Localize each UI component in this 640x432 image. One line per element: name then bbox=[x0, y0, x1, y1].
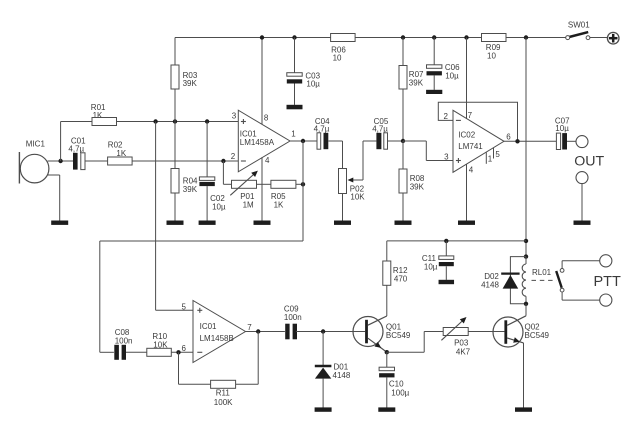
op-amp IC01A LM1458A bbox=[238, 110, 290, 172]
wire R04 to ground bbox=[174, 193, 176, 221]
node feedback/output column bbox=[301, 182, 305, 186]
wire C04 to P02 bbox=[328, 140, 342, 142]
svg-text:10K: 10K bbox=[350, 192, 365, 201]
resistor R07 bbox=[399, 66, 407, 90]
wire contact to PTT lower bbox=[561, 292, 563, 300]
svg-text:5: 5 bbox=[495, 150, 500, 159]
ground R04 bbox=[167, 221, 184, 225]
pin 4 wire bbox=[466, 164, 468, 220]
ground IC01A pin4 bbox=[254, 221, 271, 225]
wire pin2 to feedback row bbox=[222, 161, 224, 184]
capacitor C11 bbox=[439, 256, 454, 260]
svg-text:10µ: 10µ bbox=[306, 80, 320, 89]
svg-text:3: 3 bbox=[232, 112, 237, 121]
svg-text:39K: 39K bbox=[409, 78, 424, 87]
svg-text:1: 1 bbox=[488, 155, 493, 164]
svg-text:100n: 100n bbox=[115, 336, 133, 345]
svg-text:LM1458A: LM1458A bbox=[240, 138, 275, 147]
wire R11 to output bbox=[236, 383, 259, 385]
svg-text:10µ: 10µ bbox=[424, 262, 438, 271]
pin 5 tick bbox=[493, 148, 495, 159]
wire C09 to Q01 base bbox=[296, 331, 365, 333]
svg-text:2: 2 bbox=[231, 152, 236, 161]
svg-text:7: 7 bbox=[247, 323, 252, 332]
pin 4 wire bbox=[261, 157, 263, 220]
pin 8 wire bbox=[261, 38, 263, 125]
capacitor C06 bbox=[427, 65, 442, 69]
ground C02 bbox=[199, 221, 216, 225]
svg-text:8: 8 bbox=[264, 114, 269, 123]
wire row to R12 bbox=[387, 240, 526, 242]
svg-text:R11: R11 bbox=[216, 388, 231, 397]
wire output down to VOX tap bbox=[302, 141, 304, 241]
wire D02 branch bbox=[510, 257, 526, 304]
capacitor C02 bbox=[199, 177, 214, 181]
op-amp IC02 LM741 bbox=[453, 110, 504, 172]
ground P02 bbox=[334, 221, 351, 225]
wire P01 to R05 bbox=[257, 183, 271, 185]
svg-text:IC01: IC01 bbox=[200, 322, 217, 331]
svg-text:1: 1 bbox=[291, 130, 296, 139]
svg-text:3: 3 bbox=[444, 152, 449, 161]
svg-text:470: 470 bbox=[394, 274, 408, 283]
resistor R05 bbox=[271, 180, 296, 188]
node mic output junction bbox=[58, 159, 62, 163]
wire node to R04 bbox=[174, 122, 176, 169]
svg-text:39K: 39K bbox=[183, 79, 198, 88]
wire node to pin3 IC02 bbox=[403, 140, 426, 142]
svg-text:SW01: SW01 bbox=[568, 20, 590, 29]
trimmer P01 bbox=[232, 180, 257, 188]
wire Q02 collector to relay bbox=[525, 304, 527, 316]
svg-text:MIC1: MIC1 bbox=[26, 140, 46, 149]
relay contact lever bbox=[556, 271, 562, 288]
wire R01 to pin3 bbox=[117, 121, 239, 123]
wire output pin7 bbox=[246, 331, 285, 333]
wire Q02 emitter to ground bbox=[523, 343, 525, 408]
wire R03 to node bbox=[174, 89, 176, 122]
wire rail to C03 bbox=[294, 38, 296, 73]
resistor R11 bbox=[211, 380, 236, 388]
svg-text:1K: 1K bbox=[274, 200, 284, 209]
wire R10 to pin6 bbox=[171, 351, 193, 353]
ground D01 bbox=[315, 407, 332, 411]
node relay bottom bbox=[524, 302, 528, 306]
resistor R04 bbox=[171, 169, 179, 194]
svg-text:BC549: BC549 bbox=[386, 331, 411, 340]
terminal OUT lower bbox=[576, 172, 588, 184]
svg-text:4,7µ: 4,7µ bbox=[68, 145, 84, 154]
svg-text:C10: C10 bbox=[389, 379, 404, 388]
capacitor C03 bbox=[287, 73, 302, 77]
svg-text:1M: 1M bbox=[243, 200, 254, 209]
wire R02 to pin2 bbox=[132, 160, 238, 162]
resistor R08 bbox=[399, 169, 407, 193]
wire C11 top bbox=[445, 241, 447, 256]
wire node to C02 bbox=[206, 122, 208, 177]
relay contact lower bbox=[560, 288, 564, 292]
wire C05 to node bbox=[388, 140, 404, 142]
wire P02 to ground bbox=[342, 194, 344, 221]
wire feedback R11 bbox=[178, 352, 180, 384]
node rail C03 bbox=[292, 35, 296, 39]
svg-text:6: 6 bbox=[181, 344, 186, 353]
svg-text:100µ: 100µ bbox=[391, 388, 409, 397]
terminal PTT lower bbox=[600, 294, 612, 306]
svg-text:4148: 4148 bbox=[333, 371, 351, 380]
wire bias to pin5 bbox=[156, 309, 193, 311]
svg-text:5: 5 bbox=[181, 302, 186, 311]
wire C10 to ground bbox=[386, 377, 388, 407]
svg-text:2: 2 bbox=[444, 112, 449, 121]
svg-text:1K: 1K bbox=[116, 149, 126, 158]
wire C01 to R02 bbox=[85, 160, 108, 162]
wire output IC02 bbox=[504, 140, 556, 142]
relay coil RL01 bbox=[525, 257, 527, 264]
svg-text:4: 4 bbox=[469, 165, 474, 174]
svg-text:10: 10 bbox=[487, 51, 496, 60]
wire rail to R03 bbox=[174, 38, 176, 66]
wire P02 wiper bbox=[353, 179, 364, 181]
transistor Q01 BC549 bbox=[353, 317, 383, 347]
node bias tap pin5 bbox=[153, 119, 157, 123]
wire R08 to ground bbox=[402, 193, 404, 221]
wire feedback pin2 to pin6 bbox=[438, 102, 517, 141]
node rail pin8 bbox=[260, 35, 264, 39]
svg-text:RL01: RL01 bbox=[532, 268, 552, 277]
node pin2 junction bbox=[221, 159, 225, 163]
wire to D01 bbox=[322, 332, 324, 367]
svg-text:LM1458B: LM1458B bbox=[200, 334, 234, 343]
svg-text:10µ: 10µ bbox=[212, 202, 226, 211]
ground C06 bbox=[426, 90, 442, 94]
svg-text:4: 4 bbox=[265, 156, 270, 165]
ground IC02 pin4 bbox=[458, 221, 475, 225]
svg-text:4,7µ: 4,7µ bbox=[314, 125, 330, 134]
wire C08 to R10 bbox=[126, 351, 147, 353]
diode D01 4148 bbox=[315, 365, 332, 367]
wire mic ground lead bbox=[48, 174, 60, 176]
node relay top bbox=[524, 254, 528, 258]
wire emitter to C10 bbox=[386, 352, 388, 367]
resistor R03 bbox=[171, 65, 179, 89]
wire C07 to OUT bbox=[567, 140, 576, 142]
wire output pin1 bbox=[290, 140, 317, 142]
pin 1 tick bbox=[485, 153, 487, 164]
svg-text:10µ: 10µ bbox=[555, 124, 569, 133]
svg-text:BC549: BC549 bbox=[525, 331, 550, 340]
node rail pin7 bbox=[464, 35, 468, 39]
resistor R10 bbox=[147, 348, 172, 356]
terminal OUT upper bbox=[576, 136, 588, 148]
wire mic to R01 row bbox=[60, 122, 62, 162]
node rail C06 bbox=[432, 35, 436, 39]
wire contact to PTT upper bbox=[561, 261, 563, 269]
wire R07 to node bbox=[402, 89, 404, 141]
wire bias to IC01B pin5 bbox=[155, 122, 157, 311]
svg-text:IC02: IC02 bbox=[458, 130, 475, 139]
terminal PTT upper bbox=[600, 255, 612, 267]
svg-text:10: 10 bbox=[333, 54, 342, 63]
relay actuator dashed link bbox=[532, 279, 557, 281]
svg-text:PTT: PTT bbox=[594, 274, 622, 290]
transistor Q02 BC549 bbox=[493, 317, 523, 347]
resistor R09 bbox=[482, 34, 507, 42]
resistor R06 bbox=[331, 34, 356, 42]
node pin6 junction bbox=[176, 350, 180, 354]
svg-text:39K: 39K bbox=[410, 182, 425, 191]
node C11 tap bbox=[444, 239, 448, 243]
battery terminal B+ bbox=[607, 32, 619, 44]
svg-text:7: 7 bbox=[468, 111, 473, 120]
trimmer P03 bbox=[443, 328, 468, 336]
wire P03 to Q02 base bbox=[468, 331, 504, 333]
ground Q02 bbox=[515, 407, 532, 411]
node rail relay feed bbox=[524, 35, 528, 39]
wire V+ rail bbox=[175, 37, 331, 39]
op-amp IC01B LM1458B bbox=[193, 301, 246, 363]
wire C02 to ground bbox=[206, 186, 208, 221]
wire R05 to output node bbox=[296, 183, 303, 185]
node rail R07 bbox=[401, 35, 405, 39]
svg-text:P03: P03 bbox=[454, 339, 469, 348]
wire emitter to P03 bbox=[387, 351, 424, 353]
svg-text:4K7: 4K7 bbox=[456, 348, 471, 357]
wire C11 to ground bbox=[445, 266, 447, 280]
svg-text:LM741: LM741 bbox=[458, 142, 483, 151]
ground C10 bbox=[378, 407, 395, 411]
svg-text:10K: 10K bbox=[153, 340, 168, 349]
svg-text:OUT: OUT bbox=[574, 154, 604, 170]
diode D02 4148 bbox=[501, 273, 519, 275]
node D01 tap bbox=[321, 329, 325, 333]
svg-text:39K: 39K bbox=[183, 185, 198, 194]
svg-text:4148: 4148 bbox=[481, 280, 499, 289]
ground C03 bbox=[287, 105, 303, 110]
resistor R12 bbox=[383, 261, 391, 285]
node output IC02 bbox=[515, 139, 519, 143]
pin 7 wire bbox=[466, 38, 468, 120]
wire Q01 collector to R12 bbox=[386, 285, 388, 316]
relay contact upper bbox=[560, 269, 564, 273]
wire D01 to ground bbox=[322, 379, 324, 408]
wire node to R08 bbox=[402, 141, 404, 169]
svg-text:100K: 100K bbox=[214, 398, 233, 407]
node C02 tap bbox=[205, 119, 209, 123]
node pin7 output bbox=[256, 329, 260, 333]
wire rail down to relay bbox=[525, 38, 527, 257]
ground OUT bbox=[574, 221, 591, 225]
ground R08 bbox=[395, 221, 412, 225]
node R07/R08/C05 bbox=[401, 139, 405, 143]
trimmer P02 bbox=[339, 169, 347, 194]
svg-text:100n: 100n bbox=[284, 313, 302, 322]
node Q01 emitter bbox=[385, 350, 389, 354]
node output IC01A bbox=[301, 139, 305, 143]
wire C06 to ground bbox=[433, 75, 435, 90]
svg-text:6: 6 bbox=[506, 132, 511, 141]
ground mic bbox=[51, 221, 68, 225]
wire OUT ground lead bbox=[581, 184, 583, 221]
wire C03 to ground bbox=[294, 84, 296, 105]
ground C11 bbox=[439, 280, 455, 284]
node R12/C11 row bbox=[524, 239, 528, 243]
wire rail to R07 bbox=[402, 38, 404, 66]
wire rail to C06 bbox=[433, 38, 435, 65]
wire mic output bbox=[48, 160, 73, 162]
node R03/R04 divider bbox=[173, 119, 177, 123]
capacitor C10 bbox=[379, 367, 394, 371]
svg-text:10µ: 10µ bbox=[445, 71, 459, 80]
